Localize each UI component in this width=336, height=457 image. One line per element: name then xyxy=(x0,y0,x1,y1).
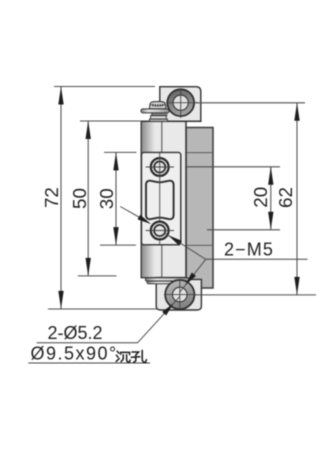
dimension 50 xyxy=(69,121,140,276)
svg-text:62: 62 xyxy=(275,187,296,208)
label 2-M5 with leaders xyxy=(165,233,308,292)
svg-text:2−M5: 2−M5 xyxy=(224,240,274,260)
dimension 62 xyxy=(195,103,317,295)
svg-text:2-Ø5.2: 2-Ø5.2 xyxy=(48,323,103,343)
svg-text:Ø9.5x90°: Ø9.5x90° xyxy=(31,344,118,364)
upper M5 hole xyxy=(146,153,174,245)
top tab (ear with counterbore) xyxy=(160,87,201,122)
side column (right gray plate) xyxy=(186,128,213,289)
svg-text:20: 20 xyxy=(250,187,271,208)
obround slot xyxy=(146,181,174,219)
hand-drawn CJK: 沉孔 (counterbore) xyxy=(116,350,146,362)
front plate xyxy=(142,152,181,244)
label 2-dia5.2 counterbore with leader xyxy=(28,296,180,363)
screw (side view on body top) xyxy=(141,102,169,122)
svg-text:30: 30 xyxy=(96,188,117,209)
body (main block) xyxy=(141,121,201,277)
bottom tab (ear with counterbore) xyxy=(156,279,201,310)
leader to lower M5 hole (from left) xyxy=(120,207,152,227)
bottom counterbore hole xyxy=(164,280,197,310)
svg-text:50: 50 xyxy=(69,188,90,209)
top counterbore hole xyxy=(166,88,198,118)
svg-text:72: 72 xyxy=(41,187,62,208)
neck washer under body xyxy=(146,278,190,284)
dimension 20 xyxy=(187,167,281,230)
lower M5 hole xyxy=(146,222,174,240)
dimension 30 xyxy=(96,152,136,245)
dimension 72 xyxy=(41,87,157,310)
